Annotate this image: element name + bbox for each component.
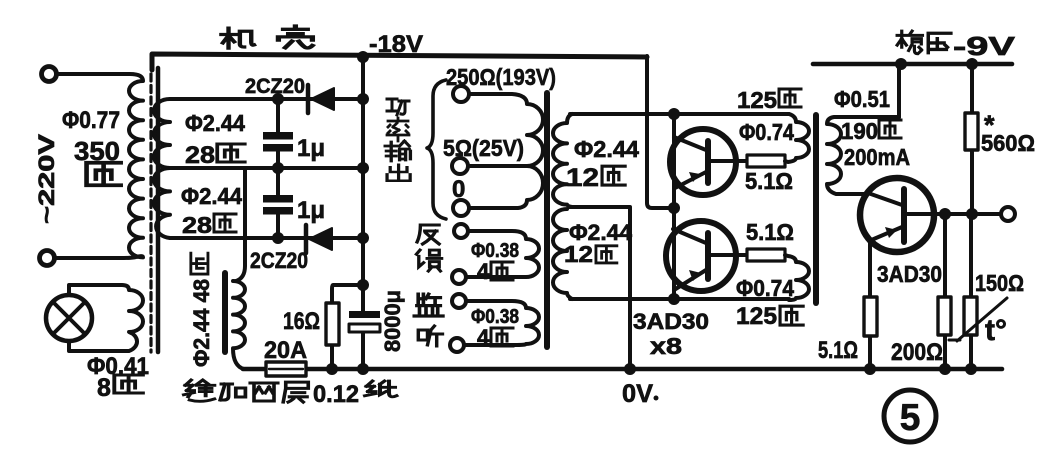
svg-text:8: 8	[97, 374, 111, 402]
svg-text:125: 125	[737, 87, 777, 113]
svg-text:125: 125	[736, 303, 777, 330]
svg-text:560Ω: 560Ω	[981, 130, 1035, 156]
svg-text:5.1Ω: 5.1Ω	[746, 219, 794, 245]
svg-text:Φ2.44 48: Φ2.44 48	[189, 279, 214, 367]
svg-text:12: 12	[566, 164, 599, 192]
svg-text:Φ2.44: Φ2.44	[574, 136, 639, 162]
svg-text:12: 12	[564, 241, 593, 267]
svg-text:Φ0.74: Φ0.74	[736, 275, 794, 301]
svg-text:200mA: 200mA	[844, 144, 910, 170]
svg-text:Φ2.44: Φ2.44	[185, 110, 245, 136]
svg-text:8000μ: 8000μ	[380, 290, 405, 352]
svg-text:5.1Ω: 5.1Ω	[745, 168, 793, 194]
svg-text:~220V: ~220V	[34, 134, 59, 224]
svg-text:250Ω(193V): 250Ω(193V)	[446, 64, 556, 90]
svg-text:2CZ20: 2CZ20	[245, 75, 305, 98]
svg-text:20A: 20A	[264, 337, 307, 364]
svg-text:5: 5	[900, 397, 921, 438]
svg-text:-9V: -9V	[953, 31, 1016, 61]
svg-text:4: 4	[477, 259, 490, 284]
svg-text:x8: x8	[650, 333, 682, 359]
svg-text:0: 0	[452, 176, 465, 203]
svg-text:3AD30: 3AD30	[877, 261, 942, 287]
svg-text:4: 4	[477, 325, 490, 350]
svg-text:t°: t°	[985, 314, 1007, 347]
svg-text:1μ: 1μ	[297, 197, 325, 224]
svg-text:16Ω: 16Ω	[283, 308, 320, 335]
svg-text:2CZ20: 2CZ20	[250, 248, 308, 273]
svg-text:190: 190	[841, 118, 878, 144]
svg-text:0V: 0V	[622, 380, 653, 408]
svg-text:-18V: -18V	[369, 31, 423, 58]
svg-text:150Ω: 150Ω	[975, 270, 1024, 296]
svg-text:Φ0.74: Φ0.74	[739, 119, 794, 145]
svg-text:1μ: 1μ	[297, 135, 325, 162]
svg-text:Φ2.44: Φ2.44	[181, 183, 242, 209]
svg-text:5Ω(25V): 5Ω(25V)	[443, 135, 524, 161]
svg-text:28: 28	[185, 142, 215, 169]
svg-text:28: 28	[182, 212, 212, 238]
svg-text:Φ0.51: Φ0.51	[834, 86, 890, 112]
svg-text:0.12: 0.12	[313, 381, 359, 408]
svg-text:5.1Ω: 5.1Ω	[818, 337, 858, 364]
svg-text:3AD30: 3AD30	[633, 309, 709, 334]
svg-text:Φ0.77: Φ0.77	[62, 107, 120, 134]
svg-text:200Ω: 200Ω	[891, 339, 943, 366]
